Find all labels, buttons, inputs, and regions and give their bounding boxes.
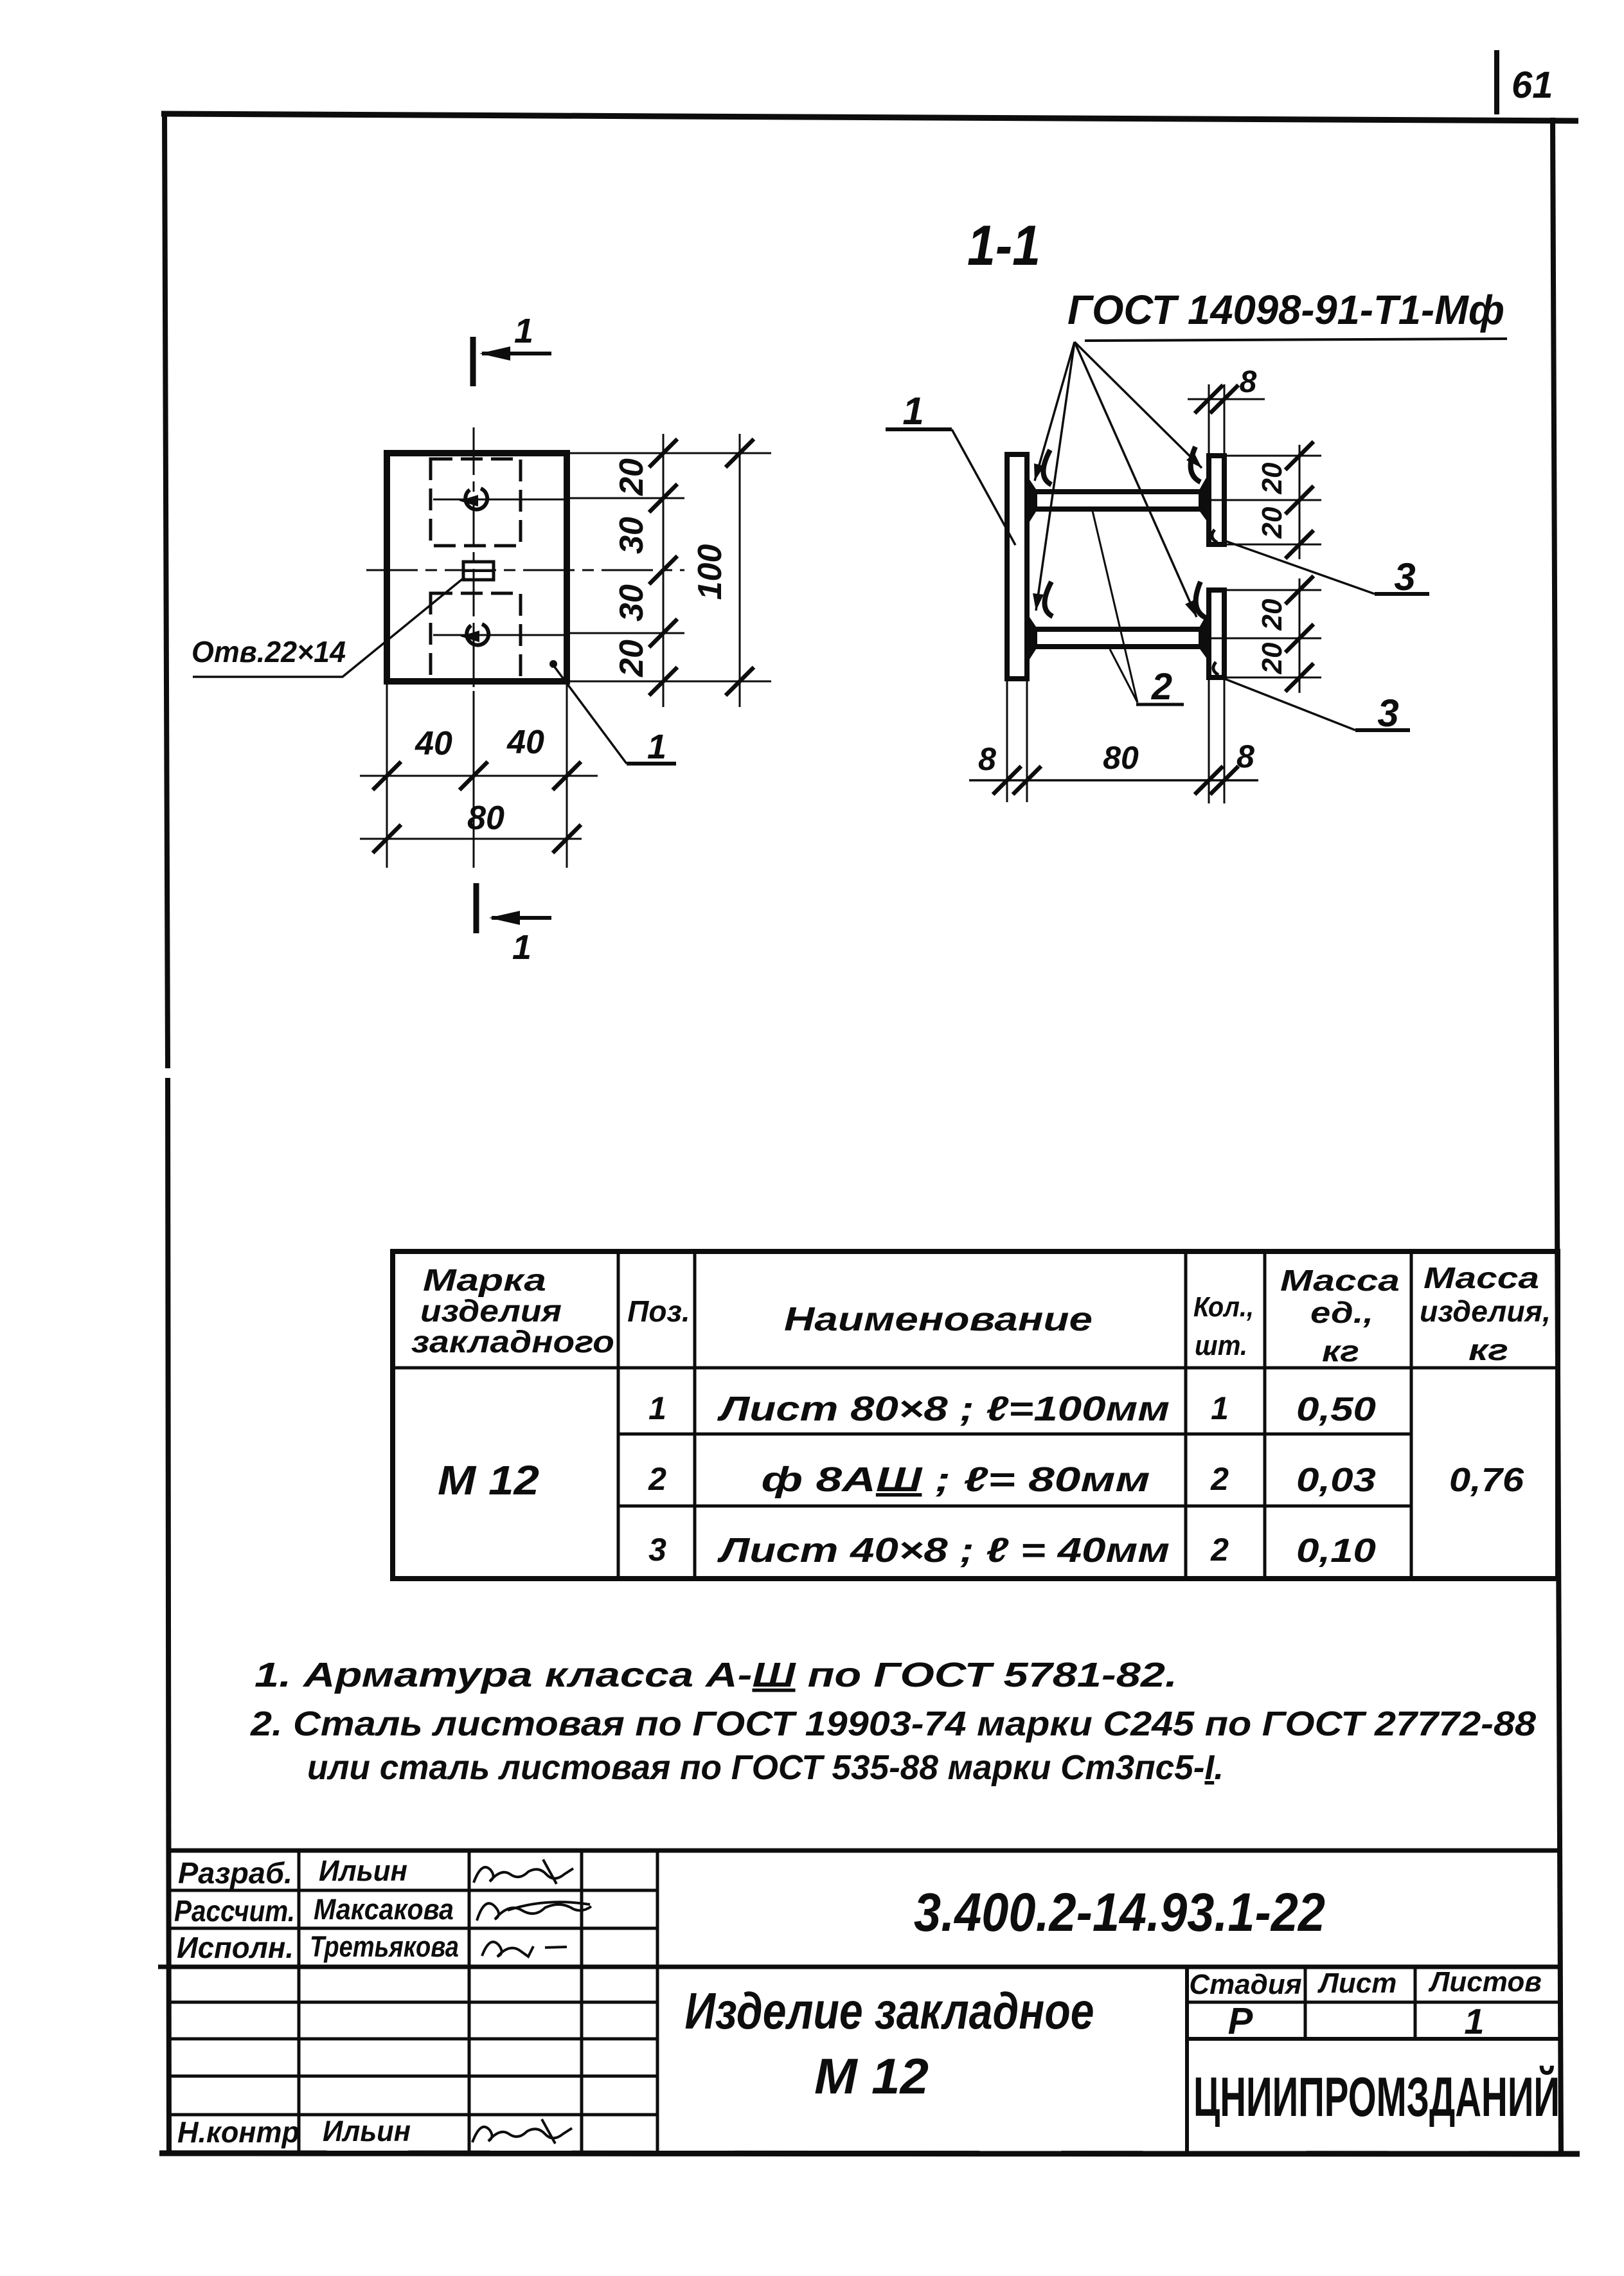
dim line 80 bbox=[360, 838, 582, 840]
svg-text:20: 20 bbox=[1256, 598, 1288, 631]
leader item 1 (section) bbox=[886, 427, 952, 431]
svg-text:изделия: изделия bbox=[420, 1295, 562, 1329]
svg-text:1: 1 bbox=[647, 728, 666, 766]
svg-text:61: 61 bbox=[1512, 64, 1553, 106]
svg-text:20: 20 bbox=[613, 640, 650, 677]
svg-text:40: 40 bbox=[415, 725, 452, 762]
svg-text:Масса: Масса bbox=[1280, 1264, 1400, 1297]
svg-text:1: 1 bbox=[514, 312, 533, 350]
svg-text:1. Арматура класса А-Ш по: 1. Арматура класса А-Ш по ГОСТ 5781-82. bbox=[254, 1656, 1177, 1694]
svg-text:0,10: 0,10 bbox=[1296, 1532, 1376, 1570]
top dim 8 ticks bbox=[1195, 385, 1238, 413]
svg-text:Исполн.: Исполн. bbox=[177, 1931, 294, 1964]
fan arrowhead weld bar2 right bbox=[1185, 600, 1197, 617]
svg-text:Максакова: Максакова bbox=[314, 1893, 454, 1926]
section mark bottom arrow line bbox=[492, 916, 551, 920]
svg-text:100: 100 bbox=[692, 544, 729, 600]
svg-text:ЦНИИПРОМЗДАНИЙ: ЦНИИПРОМЗДАНИЙ bbox=[1193, 2066, 1560, 2128]
dim line 20/20 upper bbox=[1299, 445, 1301, 559]
hole mid line bbox=[463, 569, 494, 572]
svg-text:Масса: Масса bbox=[1423, 1261, 1539, 1295]
weld note underline bbox=[1085, 339, 1507, 341]
weld hook bar2 right bbox=[1196, 582, 1206, 618]
weld fillet bar2 left bbox=[1027, 613, 1037, 663]
svg-text:Поз.: Поз. bbox=[627, 1295, 690, 1328]
anchor loop lower bbox=[467, 624, 488, 645]
page frame top border bbox=[161, 114, 1578, 121]
svg-text:Марка: Марка bbox=[423, 1264, 546, 1298]
leader item 1 (plan) start dot bbox=[549, 660, 557, 668]
bottom dim line 8-80-8 bbox=[969, 779, 1258, 782]
svg-text:Разраб.: Разраб. bbox=[178, 1856, 292, 1890]
extension line top edge bbox=[569, 453, 771, 454]
right section rows bbox=[1187, 2001, 1560, 2004]
plate item3 lower (section) bbox=[1209, 590, 1224, 677]
weld tick plate3 upper corner bbox=[1212, 530, 1217, 542]
svg-text:М 12: М 12 bbox=[438, 1457, 539, 1503]
svg-text:0,03: 0,03 bbox=[1296, 1462, 1376, 1499]
ticks horizontal dims bbox=[373, 762, 581, 853]
weld fillet bar1 right bbox=[1199, 473, 1209, 524]
section mark bottom tick bbox=[474, 883, 479, 933]
svg-text:Третьякова: Третьякова bbox=[310, 1930, 459, 1963]
fan arrowhead weld bar1 right bbox=[1186, 453, 1202, 468]
svg-text:или сталь листовая по ГОСТ 535: или сталь листовая по ГОСТ 535-88 марки … bbox=[307, 1748, 1224, 1787]
table outer bbox=[393, 1251, 1558, 1579]
page frame left border (upper) bbox=[165, 112, 168, 1068]
rebar item2 lower: bottom line bbox=[1027, 644, 1209, 649]
svg-text:30: 30 bbox=[613, 517, 650, 554]
svg-text:кг: кг bbox=[1322, 1334, 1359, 1368]
section mark top arrow line bbox=[482, 352, 551, 355]
svg-text:Ильин: Ильин bbox=[323, 2115, 411, 2147]
hidden anchor rect upper (dashed) bbox=[431, 459, 521, 546]
table row lines bbox=[618, 1433, 1411, 1436]
anchor arrow upper bbox=[459, 495, 478, 506]
extension line anchor1 bbox=[569, 497, 684, 499]
plate item3 upper (section) bbox=[1209, 456, 1224, 544]
hole 22x14 outline bbox=[463, 562, 494, 580]
ticks vertical dims bbox=[649, 439, 754, 695]
svg-text:Наименование: Наименование bbox=[784, 1301, 1093, 1338]
heavy divider line bbox=[158, 1965, 1560, 1969]
svg-text:Отв.22×14: Отв.22×14 bbox=[192, 635, 346, 668]
svg-text:1: 1 bbox=[512, 928, 531, 967]
weld tick plate3 lower corner bbox=[1213, 662, 1218, 675]
signature 4 bbox=[472, 2119, 572, 2144]
weld hook bar1 left bbox=[1043, 450, 1051, 485]
svg-text:30: 30 bbox=[613, 584, 650, 622]
svg-text:изделия,: изделия, bbox=[1420, 1295, 1551, 1328]
svg-text:1: 1 bbox=[1211, 1390, 1229, 1426]
right section verticals bbox=[1185, 1967, 1189, 2154]
dim line 20/20 lower bbox=[1299, 578, 1301, 693]
svg-text:Листов: Листов bbox=[1428, 1966, 1542, 1998]
horizontal center line bbox=[366, 569, 684, 571]
svg-text:1: 1 bbox=[648, 1390, 666, 1426]
signature 2 bbox=[477, 1902, 591, 1921]
extension line anchor2 bbox=[569, 632, 684, 634]
svg-text:кг: кг bbox=[1468, 1333, 1508, 1366]
svg-text:Рассчит.: Рассчит. bbox=[174, 1894, 295, 1928]
weld leader fan bbox=[1035, 342, 1075, 481]
plate item1 outline (plan) bbox=[387, 453, 567, 681]
svg-text:20: 20 bbox=[1256, 506, 1288, 539]
section mark bottom arrowhead bbox=[489, 911, 520, 925]
svg-text:Лист 80×8 ; ℓ=100мм: Лист 80×8 ; ℓ=100мм bbox=[717, 1390, 1170, 1428]
anchor line upper bbox=[433, 499, 567, 501]
svg-text:3: 3 bbox=[1377, 692, 1398, 735]
table header line bbox=[393, 1366, 1558, 1370]
svg-text:80: 80 bbox=[467, 800, 504, 837]
svg-text:8: 8 bbox=[1240, 365, 1257, 399]
svg-text:Лист 40×8 ; ℓ = 40мм: Лист 40×8 ; ℓ = 40мм bbox=[717, 1531, 1170, 1570]
svg-text:20: 20 bbox=[1256, 642, 1288, 674]
page frame right border bbox=[1553, 118, 1561, 2155]
svg-text:шт.: шт. bbox=[1195, 1330, 1247, 1361]
table verticals bbox=[617, 1251, 620, 1579]
anchor arrow lower bbox=[460, 631, 479, 642]
rebar item2 upper: bottom line bbox=[1027, 506, 1209, 512]
svg-text:2: 2 bbox=[1210, 1461, 1229, 1497]
bottom ext lines bbox=[1006, 681, 1008, 802]
rebar item2 lower: top line bbox=[1027, 627, 1209, 632]
svg-text:Ильин: Ильин bbox=[319, 1854, 407, 1887]
svg-text:2: 2 bbox=[1210, 1532, 1229, 1568]
svg-text:Стадия: Стадия bbox=[1189, 1969, 1301, 2000]
page frame bottom border (title block bottom) bbox=[159, 2153, 1580, 2154]
svg-text:М 12: М 12 bbox=[814, 2048, 929, 2104]
svg-text:8: 8 bbox=[978, 741, 996, 777]
leader item 1 (plan) bbox=[553, 665, 627, 764]
fan arrowhead weld bar2 left bbox=[1033, 593, 1044, 611]
svg-text:20: 20 bbox=[1256, 462, 1288, 494]
svg-text:закладного: закладного bbox=[411, 1325, 614, 1359]
svg-text:Р: Р bbox=[1228, 2000, 1253, 2042]
svg-text:1: 1 bbox=[902, 390, 924, 433]
leader item 2 bbox=[1093, 511, 1138, 703]
svg-text:3: 3 bbox=[1394, 555, 1415, 598]
dim line 20-30-30-20 bbox=[663, 434, 665, 707]
sheet number tick bbox=[1494, 50, 1499, 114]
plate item1 (section) bbox=[1007, 454, 1027, 679]
fan arrowhead weld bar1 left bbox=[1034, 463, 1044, 481]
extension lines below plate bbox=[386, 684, 388, 868]
bottom ticks bbox=[993, 766, 1238, 794]
section mark top arrowhead bbox=[479, 346, 510, 361]
signature 1 bbox=[474, 1859, 573, 1884]
left grid rows bbox=[168, 1889, 657, 1892]
weld hook bar2 left bbox=[1044, 582, 1053, 616]
svg-text:20: 20 bbox=[613, 458, 650, 496]
top dim 8 ext lines bbox=[1208, 384, 1210, 453]
anchor line lower bbox=[433, 634, 567, 636]
hidden anchor rect lower (dashed) bbox=[431, 593, 521, 680]
svg-text:0,50: 0,50 bbox=[1296, 1391, 1376, 1428]
svg-text:2. Сталь листовая по ГОСТ 1990: 2. Сталь листовая по ГОСТ 19903-74 марки… bbox=[250, 1705, 1536, 1743]
svg-text:Н.контр: Н.контр bbox=[177, 2115, 299, 2149]
weld fillet bar1 left bbox=[1027, 476, 1037, 526]
extension line bottom edge bbox=[569, 681, 771, 683]
svg-text:80: 80 bbox=[1103, 740, 1139, 776]
svg-text:3.400.2-14.93.1-22: 3.400.2-14.93.1-22 bbox=[914, 1882, 1325, 1942]
dim line 40-40 bbox=[360, 775, 598, 777]
leader item 3 upper bbox=[1222, 540, 1375, 594]
vertical center line bbox=[473, 427, 475, 691]
svg-text:ГОСТ 14098-91-Т1-Мф: ГОСТ 14098-91-Т1-Мф bbox=[1067, 287, 1504, 333]
svg-text:1-1: 1-1 bbox=[967, 213, 1040, 277]
section mark top tick bbox=[470, 337, 476, 386]
svg-text:1: 1 bbox=[1464, 2001, 1484, 2041]
page frame left border (lower) bbox=[168, 1078, 169, 2155]
weld fillet bar2 right bbox=[1199, 611, 1209, 661]
title block top line bbox=[168, 1849, 1560, 1853]
left grid verticals bbox=[298, 1850, 301, 2154]
svg-text:ф 8АШ ; ℓ= 80мм: ф 8АШ ; ℓ= 80мм bbox=[762, 1460, 1150, 1499]
top dim 8 line bbox=[1188, 399, 1265, 400]
rebar item2 upper: top line bbox=[1027, 489, 1209, 494]
hole leader line bbox=[193, 577, 465, 677]
svg-text:3: 3 bbox=[648, 1532, 666, 1568]
svg-text:8: 8 bbox=[1236, 739, 1254, 775]
svg-text:Изделие закладное: Изделие закладное bbox=[685, 1982, 1094, 2039]
svg-text:40: 40 bbox=[506, 724, 544, 761]
dim line 100 bbox=[739, 434, 741, 707]
anchor loop upper bbox=[465, 488, 487, 510]
signature 3 bbox=[482, 1942, 567, 1957]
svg-text:ед.,: ед., bbox=[1310, 1296, 1373, 1329]
svg-text:2: 2 bbox=[1151, 666, 1172, 708]
leader item 3 lower bbox=[1218, 676, 1355, 730]
svg-text:Кол.,: Кол., bbox=[1193, 1291, 1254, 1323]
ext lines right plates upper bbox=[1224, 455, 1321, 457]
weld hook bar1 right bbox=[1191, 447, 1200, 482]
ticks 20/20 bbox=[1285, 442, 1314, 692]
svg-text:Лист: Лист bbox=[1317, 1967, 1397, 1999]
ext lines right plates lower bbox=[1224, 589, 1321, 591]
svg-text:0,76: 0,76 bbox=[1449, 1462, 1524, 1499]
svg-text:2: 2 bbox=[648, 1461, 666, 1497]
